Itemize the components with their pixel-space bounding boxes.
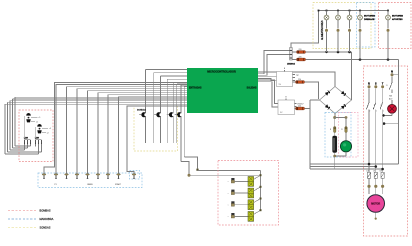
pushbuttons P1-P8	[42, 174, 120, 179]
terminal strip box (red dashed)	[218, 161, 279, 226]
contactor K1 main contacts R S T	[366, 82, 384, 172]
wire output O3 riser to driver1	[258, 55, 290, 76]
resistor R1	[297, 49, 306, 54]
resistor R4	[296, 105, 305, 110]
feeder branches F1-F5 (breaker+indicator)	[324, 11, 390, 60]
svg-text:N: N	[391, 70, 393, 73]
terminal bus vertical	[260, 171, 262, 210]
svg-text:LDR: LDR	[35, 138, 40, 140]
probe electrodes E1-E4 (crescent connectors)	[139, 112, 183, 117]
pushbutton P9 box (blue dashed)	[130, 171, 140, 180]
legend line SONDAS (yellow)	[8, 226, 51, 230]
svg-text:1: 1	[367, 105, 368, 107]
svg-text:DRENAJE: DRENAJE	[364, 18, 375, 21]
svg-text:START: START	[115, 183, 122, 186]
pilot lamp H1	[388, 100, 397, 113]
svg-text:ALIMENTADORES: ALIMENTADORES	[321, 20, 324, 40]
wire A to terminal bus	[181, 162, 261, 177]
svg-text:s: s	[228, 193, 229, 195]
svg-text:+5: +5	[49, 128, 51, 130]
label MOTORES APORTES	[392, 16, 404, 21]
svg-text:R: R	[368, 82, 370, 85]
svg-text:APORTES: APORTES	[392, 18, 403, 21]
wire driver3 to node X	[295, 108, 311, 110]
svg-text:2: 2	[383, 111, 384, 113]
package Q1 (3-pin)	[24, 138, 31, 144]
resistor R5 (vertical)	[330, 118, 336, 133]
svg-text:P1: P1	[54, 184, 56, 186]
driver module U2	[277, 68, 300, 86]
feeders group box (yellow dashed)	[313, 3, 371, 49]
resistor R3	[296, 79, 305, 84]
wire line B	[292, 58, 398, 61]
wire lamp return N	[383, 122, 399, 125]
svg-text:+5: +5	[38, 117, 40, 119]
svg-text:s1: s1	[36, 121, 38, 123]
svg-text:2: 2	[376, 111, 377, 113]
svg-text:96⁄4: 96⁄4	[389, 96, 392, 98]
sensor S2	[35, 124, 51, 140]
package Q2 (3-pin)	[35, 138, 42, 144]
wire output O2 riser to driver1	[258, 51, 290, 74]
svg-text:S: S	[375, 82, 377, 85]
svg-text:BMBS: BMBS	[87, 184, 93, 186]
pushbutton P9	[132, 174, 136, 176]
drain motors group box (blue dashed)	[357, 3, 376, 48]
svg-text:220: 220	[299, 49, 302, 51]
wire N to line B drop	[392, 74, 399, 76]
pushbutton panel box (blue dashed)	[38, 173, 142, 188]
svg-text:R: R	[330, 129, 332, 131]
wires pushbutton risers staircase	[44, 83, 187, 174]
wire link row 3	[310, 168, 384, 171]
resistor R2	[297, 56, 306, 61]
wire line A	[292, 51, 351, 54]
pump power group box (red dashed)	[364, 66, 408, 236]
contact K1 aux	[386, 76, 392, 93]
wire link row 1	[310, 124, 399, 166]
svg-text:s: s	[228, 181, 229, 183]
wire driver1 collector up	[291, 11, 319, 48]
svg-text:LDR: LDR	[24, 138, 29, 140]
legend line MANIOBRA (blue)	[8, 217, 54, 221]
wire driver2 to bridge left	[293, 82, 319, 99]
capacitor C1 (electrolytic)	[333, 133, 337, 157]
svg-text:1: 1	[374, 105, 375, 107]
svg-text:SALIDAS: SALIDAS	[247, 87, 257, 90]
wire bridge left feed	[310, 100, 320, 169]
wires sensor loop horizontals	[5, 97, 187, 104]
motor M1	[367, 195, 385, 220]
microcontroller block U1	[187, 68, 258, 113]
svg-text:MOTOR: MOTOR	[371, 203, 380, 206]
label MOTORES DRENAJE	[364, 16, 376, 21]
svg-text:220: 220	[298, 79, 301, 81]
svg-text:ENTRADAS: ENTRADAS	[189, 87, 202, 90]
svg-text:TIP: TIP	[296, 75, 300, 77]
wire link row 2	[310, 165, 377, 168]
wire output O4 to driver2	[258, 76, 277, 78]
wire top bus	[318, 10, 389, 12]
svg-text:220: 220	[299, 56, 302, 58]
wire lamp return T	[382, 113, 392, 117]
svg-text:MANIOBRA: MANIOBRA	[40, 217, 54, 221]
indicator group box (pink dashed)	[339, 113, 359, 158]
wire output O1 to bridge top	[258, 72, 335, 87]
thermal overload F6 elements	[366, 171, 384, 195]
wires sensor loop left verticals	[5, 97, 15, 154]
svg-text:s: s	[228, 205, 229, 207]
svg-text:T: T	[382, 82, 384, 85]
LED D5 (green indicator)	[340, 133, 351, 157]
transistor driver Q3	[290, 48, 293, 61]
svg-text:SONDAS: SONDAS	[137, 108, 147, 111]
svg-text:2N3904: 2N3904	[287, 62, 295, 65]
svg-text:2: 2	[369, 111, 370, 113]
svg-text:MOTORES: MOTORES	[392, 16, 404, 18]
wire probe pin stubs into U1 left side	[146, 69, 188, 86]
wire bridge right to line A	[351, 52, 353, 100]
legend line BOMBAS (red)	[8, 209, 51, 213]
rectified load group box (blue dashed)	[325, 113, 351, 158]
wires sensor loop bottom horizontals	[5, 146, 42, 154]
wire B to terminal bus top	[184, 157, 260, 171]
supply motors group box (red dashed)	[379, 3, 412, 49]
wire output O6 to driver3	[258, 80, 278, 104]
svg-text:13: 13	[386, 85, 388, 87]
wires package leg drops	[25, 144, 42, 155]
resistor R6 (vertical)	[341, 118, 347, 133]
wire P9 riser	[127, 106, 187, 173]
svg-text:s2: s2	[47, 132, 49, 134]
svg-text:220: 220	[298, 105, 301, 107]
bridge rectifier BR1	[320, 87, 352, 114]
wire output O7 to driver3	[258, 82, 278, 107]
svg-text:MICROCONTROLADOR: MICROCONTROLADOR	[207, 69, 236, 73]
svg-text:s: s	[228, 216, 229, 218]
sensor S1	[24, 113, 40, 140]
sensors group box (red dashed)	[19, 110, 53, 162]
probes group box (yellow dashed)	[134, 106, 178, 151]
svg-text:MOTORES: MOTORES	[364, 16, 376, 18]
level probes with terminal blocks T1-T4	[228, 174, 262, 221]
label 95-97	[389, 96, 392, 101]
svg-text:R: R	[341, 129, 343, 131]
wire bridge bottom node	[333, 114, 347, 120]
svg-text:BOMBAS: BOMBAS	[40, 209, 51, 213]
wire line B drop	[398, 60, 400, 124]
svg-text:SONDAS: SONDAS	[40, 226, 51, 230]
wire DC load bottom	[333, 155, 346, 169]
node N	[391, 70, 394, 76]
driver module U3	[278, 97, 303, 115]
wire output O5 to driver2	[258, 78, 277, 80]
wire probe verticals	[146, 69, 185, 161]
